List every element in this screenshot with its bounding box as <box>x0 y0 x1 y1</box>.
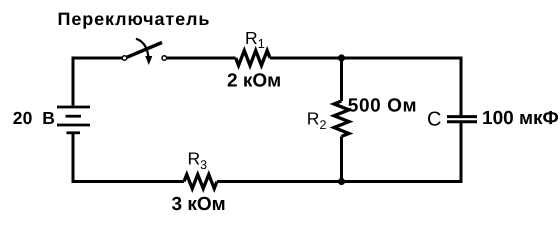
svg-text:3 кОм: 3 кОм <box>172 194 226 215</box>
svg-text:2 кОм: 2 кОм <box>227 70 281 91</box>
svg-text:500 Ом: 500 Ом <box>348 95 417 116</box>
svg-text:R2: R2 <box>307 109 327 132</box>
svg-text:20 В: 20 В <box>13 108 55 128</box>
svg-text:100 мкФ: 100 мкФ <box>482 108 559 129</box>
svg-text:C: C <box>427 109 441 131</box>
svg-text:R3: R3 <box>188 149 208 172</box>
svg-text:Переключатель: Переключатель <box>58 9 211 29</box>
svg-text:R1: R1 <box>245 28 265 51</box>
